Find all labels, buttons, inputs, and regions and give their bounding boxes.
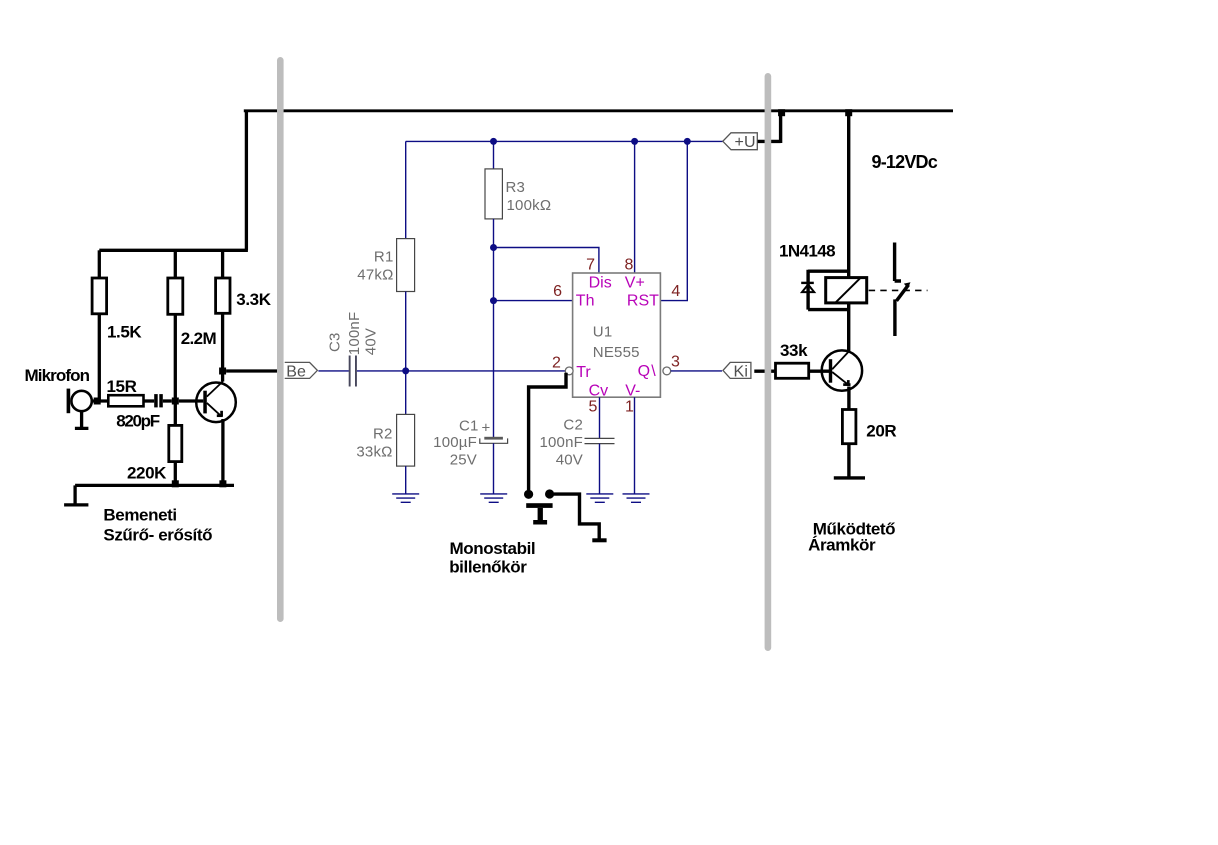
svg-text:C1: C1 <box>459 417 479 434</box>
svg-text:100µF: 100µF <box>433 434 477 451</box>
svg-text:6: 6 <box>553 283 562 300</box>
microphone Mikrofon <box>67 389 92 429</box>
svg-text:40V: 40V <box>556 451 583 468</box>
svg-text:Th: Th <box>576 293 595 310</box>
pin 3 circle <box>663 367 671 375</box>
wire Be to C3 <box>318 370 349 372</box>
svg-text:47kΩ: 47kΩ <box>357 266 393 283</box>
svg-text:billenőkör: billenőkör <box>449 558 527 577</box>
node Be junction <box>219 368 226 375</box>
section divider 1 <box>277 57 284 622</box>
node mic junction <box>94 398 101 405</box>
wire contact lower <box>893 299 896 336</box>
ground left <box>64 485 88 505</box>
wire pin4 RST <box>660 141 687 300</box>
relay contact arm <box>897 285 909 301</box>
svg-text:25V: 25V <box>450 451 477 468</box>
svg-text:15R: 15R <box>107 377 137 396</box>
svg-text:Be: Be <box>286 363 306 380</box>
svg-text:9-12VDc: 9-12VDc <box>872 152 938 172</box>
wire R1 bottom <box>405 292 407 371</box>
capacitor C1 plus plate <box>484 437 503 440</box>
node rail junction 220K <box>172 480 179 487</box>
svg-text:Mikrofon: Mikrofon <box>25 366 90 385</box>
resistor R2 body <box>397 414 415 466</box>
wire left rail drop <box>99 111 248 251</box>
svg-text:20R: 20R <box>866 421 896 440</box>
diode 1N4148 <box>801 283 814 292</box>
wire bottom rail <box>75 484 234 487</box>
wire +U bus <box>406 140 723 142</box>
svg-text:100kΩ: 100kΩ <box>507 197 552 214</box>
port Ki <box>723 362 751 378</box>
capacitor C2 plates <box>585 438 615 443</box>
svg-text:Cv: Cv <box>589 382 609 399</box>
svg-text:7: 7 <box>586 257 595 274</box>
pin 2 circle <box>565 367 573 375</box>
wire pin8 V+ <box>634 141 636 273</box>
svg-text:Dis: Dis <box>589 275 612 292</box>
wire emitter to 20R <box>847 387 850 410</box>
relay contact fixed <box>895 243 901 282</box>
svg-text:Szűrő- erősítő: Szűrő- erősítő <box>103 525 212 544</box>
svg-text:2: 2 <box>552 355 561 372</box>
wire mic to 15R <box>92 399 109 402</box>
svg-text:4: 4 <box>671 283 680 300</box>
svg-text:1N4148: 1N4148 <box>779 241 835 260</box>
ground button <box>592 538 606 542</box>
wire R2 bottom <box>405 466 407 494</box>
svg-text:R1: R1 <box>374 249 394 266</box>
wire 2.2M bottom <box>174 314 177 425</box>
svg-text:100nF: 100nF <box>346 312 363 356</box>
wire main +V bus <box>244 109 953 112</box>
push button S1 <box>526 503 552 524</box>
wire 33k to base <box>809 370 829 373</box>
wire push button left leg <box>529 373 566 490</box>
wire pin7 Dis <box>494 248 599 274</box>
wire +U stub black <box>758 111 781 143</box>
wire 1.5K top <box>98 250 101 278</box>
svg-text:R3: R3 <box>506 179 526 196</box>
wire 3.3K to collector <box>221 313 224 381</box>
transistor Q2 <box>822 350 862 390</box>
svg-text:8: 8 <box>624 257 633 274</box>
svg-text:40V: 40V <box>363 328 380 355</box>
node R3 top junction <box>490 138 497 145</box>
node rail junction emitter <box>219 480 226 487</box>
wire C1 bottom <box>493 443 495 494</box>
svg-text:3.3K: 3.3K <box>236 290 271 309</box>
relay contact arrowhead <box>904 282 911 288</box>
resistor 220K body <box>169 425 182 461</box>
wire R3 bottom to C1 <box>493 219 495 437</box>
wire diode loop bottom <box>808 308 849 311</box>
node Be net junction <box>402 367 409 374</box>
ground C1 <box>480 494 507 502</box>
svg-text:C2: C2 <box>563 417 583 434</box>
capacitor 820pF <box>154 394 163 407</box>
wire 3.3K top <box>221 250 224 278</box>
svg-text:1.5K: 1.5K <box>107 323 142 342</box>
node button right <box>545 489 554 498</box>
wire bus to relay <box>847 112 850 278</box>
wire 1.5K bottom <box>98 314 101 401</box>
svg-text:33kΩ: 33kΩ <box>356 444 392 461</box>
wire R2 top <box>405 371 407 415</box>
wire R3 top <box>493 141 495 169</box>
section divider 2 <box>765 73 772 651</box>
svg-text:V-: V- <box>625 382 640 399</box>
resistor 15R body <box>108 395 143 406</box>
port Be <box>285 362 318 378</box>
svg-text:U1: U1 <box>593 324 613 341</box>
svg-text:Ki: Ki <box>734 363 749 380</box>
svg-text:RST: RST <box>627 293 659 310</box>
resistor 2.2M body <box>168 278 183 314</box>
wire R1 branch top <box>405 141 407 238</box>
node +U bus junction <box>778 109 785 116</box>
wire 20R to ground <box>847 444 850 477</box>
svg-text:Tr: Tr <box>576 364 591 381</box>
svg-text:C3: C3 <box>327 332 344 352</box>
wire C820 to base node <box>163 399 172 402</box>
wire 220K bottom <box>174 462 177 486</box>
node Th junction <box>490 297 497 304</box>
node button left <box>524 490 533 499</box>
resistor 20R body <box>842 410 856 444</box>
svg-text:3: 3 <box>671 354 680 371</box>
wire button right leg <box>554 494 599 538</box>
relay K1 coil <box>826 278 867 303</box>
svg-text:820pF: 820pF <box>116 412 160 431</box>
svg-text:220K: 220K <box>127 464 167 483</box>
wire pin1 V- <box>634 397 636 494</box>
capacitor C1 lower plate <box>480 438 508 443</box>
svg-text:5: 5 <box>588 399 597 416</box>
resistor R1 body <box>397 239 415 292</box>
op-amp U1 NE555 body <box>573 273 661 397</box>
port +U <box>723 133 758 150</box>
node bus junction right <box>845 109 852 116</box>
svg-text:1: 1 <box>625 399 634 416</box>
resistor R3 body <box>485 169 502 219</box>
wire 2.2M top <box>174 250 177 278</box>
wire diode loop top <box>808 270 849 310</box>
svg-text:2.2M: 2.2M <box>181 329 217 348</box>
transistor Q1 <box>196 381 236 422</box>
ground R2 <box>392 494 419 502</box>
svg-text:+: + <box>482 419 491 436</box>
wire pin5 Cv <box>599 397 601 438</box>
wire C3 to Tr <box>357 370 565 372</box>
ground C2 <box>586 494 613 502</box>
wire Q1 emitter down <box>221 419 224 485</box>
svg-text:+U: +U <box>735 134 756 151</box>
wire relay to collector <box>847 303 850 352</box>
wire 15R to C820 <box>144 399 155 402</box>
wire Be stub <box>226 369 283 372</box>
svg-text:R2: R2 <box>373 426 393 443</box>
capacitor C3 plates <box>349 356 357 387</box>
svg-text:V+: V+ <box>625 275 645 292</box>
svg-text:100nF: 100nF <box>539 434 583 451</box>
wire pin6 Th <box>494 300 573 302</box>
resistor 3.3K body <box>216 278 230 313</box>
svg-text:Monostabil: Monostabil <box>450 539 536 558</box>
node base junction <box>172 398 179 405</box>
wire Q out to Ki <box>671 370 722 372</box>
svg-text:33k: 33k <box>780 341 808 360</box>
node V+ junction <box>631 138 638 145</box>
ground V- <box>623 494 650 502</box>
wire Ki stub black <box>754 370 775 373</box>
resistor 1.5K body <box>92 278 107 314</box>
resistor 33k body <box>776 363 809 378</box>
node RST junction <box>684 138 691 145</box>
node Dis junction <box>490 244 497 251</box>
wire Q1 base <box>179 399 204 402</box>
wire C2 bottom <box>599 444 601 494</box>
ground right <box>834 476 865 479</box>
svg-text:Áramkör: Áramkör <box>808 536 876 555</box>
svg-text:Bemeneti: Bemeneti <box>103 506 176 525</box>
svg-text:NE555: NE555 <box>593 344 640 361</box>
svg-text:Q\: Q\ <box>638 363 657 380</box>
wire contact link dashed <box>869 289 928 291</box>
